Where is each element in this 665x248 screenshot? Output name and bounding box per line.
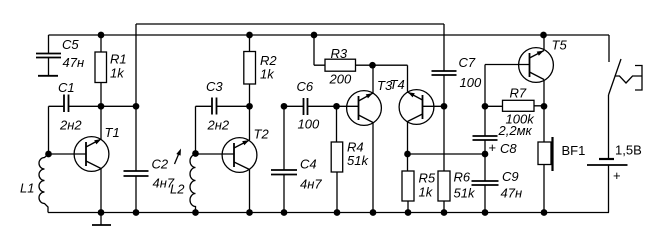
resistor R6 bbox=[438, 171, 450, 201]
svg-text:1,5В: 1,5В bbox=[615, 143, 642, 158]
svg-text:+: + bbox=[489, 140, 497, 155]
node T5 collector rail bbox=[540, 32, 547, 39]
resistor R2 bbox=[246, 32, 253, 39]
capacitor C7 bbox=[443, 24, 445, 171]
svg-text:C9: C9 bbox=[502, 169, 519, 184]
ground (under C5) bbox=[38, 75, 58, 77]
wire T1 base bbox=[49, 153, 87, 155]
resistor R7 bbox=[485, 105, 544, 108]
svg-text:R5: R5 bbox=[419, 171, 436, 186]
capacitor C2 bbox=[124, 171, 149, 176]
svg-text:200: 200 bbox=[329, 72, 352, 87]
svg-text:C2: C2 bbox=[152, 157, 169, 172]
svg-text:2н2: 2н2 bbox=[59, 118, 82, 133]
node T2 emitter rail bbox=[246, 209, 253, 216]
svg-text:R1: R1 bbox=[110, 52, 127, 67]
node C6/R4/T3 bbox=[333, 103, 340, 110]
node R3/T3 bbox=[369, 62, 376, 69]
wire R3 node to T4 collector bbox=[373, 65, 408, 91]
svg-text:C6: C6 bbox=[297, 79, 314, 94]
wire bottom rail bbox=[48, 212, 609, 214]
switch bbox=[608, 35, 610, 62]
svg-text:1k: 1k bbox=[419, 185, 434, 200]
svg-text:L2: L2 bbox=[170, 182, 185, 197]
node C8/wire bbox=[482, 151, 489, 158]
svg-text:C3: C3 bbox=[206, 79, 223, 94]
svg-text:+: + bbox=[613, 168, 621, 183]
node C4 top bbox=[281, 103, 288, 110]
node C7/T4base/R6 bbox=[441, 103, 448, 110]
resistor R1 bbox=[100, 35, 102, 106]
battery 1,5В bbox=[599, 158, 614, 160]
node x136 / C1 line bbox=[133, 103, 140, 110]
svg-text:51k: 51k bbox=[454, 186, 476, 201]
svg-text:T1: T1 bbox=[105, 125, 120, 140]
capacitor C4 bbox=[283, 106, 285, 212]
svg-text:R6: R6 bbox=[454, 170, 471, 185]
arrow (L2 adjustable core) bbox=[175, 153, 180, 165]
svg-text:100: 100 bbox=[460, 75, 482, 90]
transistor T3 bbox=[337, 105, 359, 107]
resistor R4 bbox=[336, 106, 339, 212]
node T4 emitter / R5 / wire bbox=[404, 151, 411, 158]
capacitor C5 bbox=[48, 35, 50, 76]
node R7/T5base/C8 bbox=[482, 103, 489, 110]
wire C1 left down to L1 bbox=[48, 106, 50, 154]
transistor T2 bbox=[222, 138, 257, 173]
svg-text:T2: T2 bbox=[254, 127, 270, 142]
svg-text:2н2: 2н2 bbox=[207, 118, 230, 133]
svg-text:T5: T5 bbox=[552, 38, 568, 53]
wire left vertical x136 (rail to C2) bbox=[135, 24, 137, 171]
jack plug bbox=[615, 76, 643, 83]
svg-text:R7: R7 bbox=[510, 86, 527, 101]
node rail R1 bbox=[98, 32, 105, 39]
svg-text:47н: 47н bbox=[501, 186, 523, 201]
svg-text:4н7: 4н7 bbox=[300, 177, 322, 192]
svg-text:2,2мк: 2,2мк bbox=[498, 123, 533, 138]
node R1/C1/T1 bbox=[98, 103, 105, 110]
wire T5 base corner bbox=[485, 65, 530, 107]
wire main top rail bbox=[49, 34, 610, 36]
speaker BF1 bbox=[543, 106, 545, 212]
node T5 emitter / R7 / BF1 bbox=[541, 103, 548, 110]
capacitor C6 bbox=[284, 105, 337, 107]
wire T2 base from L2 bbox=[196, 153, 235, 155]
svg-text:R3: R3 bbox=[331, 46, 348, 61]
svg-text:1k: 1k bbox=[260, 67, 275, 82]
ground (main) bbox=[100, 213, 102, 226]
svg-text:C4: C4 bbox=[300, 157, 317, 172]
capacitor C1 bbox=[49, 105, 137, 107]
node T1 emitter / ground bbox=[98, 209, 105, 216]
svg-text:C7: C7 bbox=[459, 55, 476, 70]
svg-text:BF1: BF1 bbox=[562, 143, 586, 158]
transistor T4 (mirrored) bbox=[423, 105, 445, 107]
node C1/L1/T1 bbox=[45, 151, 52, 158]
wire T4 emitter to C8 node bbox=[408, 153, 486, 155]
svg-text:L1: L1 bbox=[20, 181, 34, 196]
svg-text:100: 100 bbox=[298, 117, 320, 132]
capacitor C8 bbox=[484, 106, 486, 154]
svg-text:T4: T4 bbox=[390, 77, 405, 92]
resistor R3 bbox=[311, 32, 318, 39]
capacitor C3 bbox=[196, 105, 250, 107]
wire inner top rail bbox=[136, 23, 444, 25]
node R2/T2/C3 bbox=[246, 103, 253, 110]
transistor T1 bbox=[74, 137, 109, 172]
transistor T5 bbox=[519, 48, 554, 83]
svg-text:C8: C8 bbox=[500, 141, 517, 156]
resistor R5 bbox=[407, 154, 410, 213]
capacitor C9 bbox=[484, 154, 486, 213]
svg-text:C1: C1 bbox=[58, 80, 75, 95]
svg-text:51k: 51k bbox=[347, 153, 369, 168]
svg-text:1k: 1k bbox=[110, 66, 125, 81]
svg-text:C5: C5 bbox=[62, 37, 79, 52]
inductor L2 bbox=[195, 106, 197, 154]
svg-text:47н: 47н bbox=[63, 55, 85, 70]
